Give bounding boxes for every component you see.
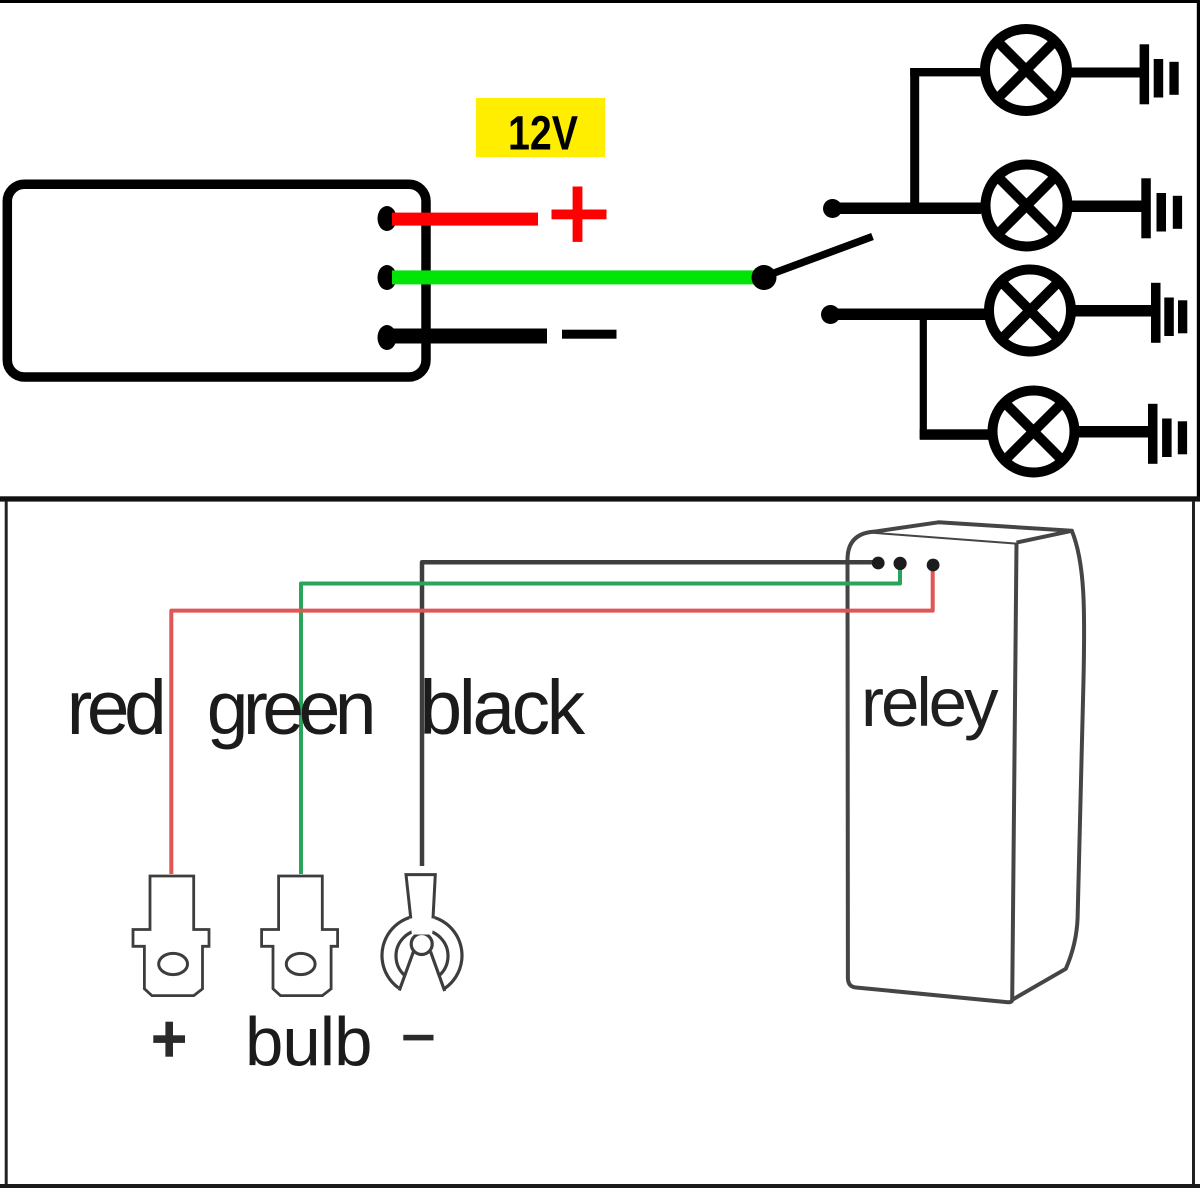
relay pin dot 1 — [872, 557, 885, 570]
wire lamp4 to ground4 — [1078, 426, 1148, 438]
fork inner arc — [396, 930, 448, 976]
connector plus spade — [133, 876, 209, 996]
label 12V — [476, 98, 605, 161]
wire upper contact to lamps — [836, 203, 981, 215]
wire to lamp4 — [920, 429, 991, 440]
border right top section — [1197, 0, 1200, 501]
terminal dot pin2 — [378, 265, 397, 290]
ground G1 — [1140, 44, 1179, 104]
fork outer arc — [382, 916, 462, 989]
wire black ground — [392, 329, 547, 344]
border top — [0, 0, 1200, 3]
terminal dot pin1 — [378, 206, 397, 231]
lamp L3 — [989, 270, 1071, 352]
wire riser to lamp1 — [910, 68, 919, 214]
svg-text:red: red — [67, 665, 162, 751]
wire lamp2 to ground2 — [1072, 201, 1142, 213]
fork slot edge left — [399, 952, 413, 991]
switch contact upper — [823, 199, 842, 218]
switch contact lower — [821, 305, 840, 324]
wire red positive — [392, 213, 538, 226]
svg-text:12V: 12V — [508, 108, 578, 161]
fork stem outline — [406, 875, 435, 919]
minus sign — [562, 330, 617, 339]
divider — [0, 496, 1200, 501]
fork stem cover — [405, 873, 437, 935]
svg-text:reley: reley — [861, 664, 999, 741]
label minus — [403, 1035, 433, 1041]
svg-text:green: green — [207, 666, 372, 750]
lamp L1 — [985, 29, 1067, 111]
svg-text:bulb: bulb — [245, 1004, 371, 1081]
border right bottom section — [1192, 501, 1195, 1186]
relay module box — [7, 184, 426, 377]
relay box top face — [873, 522, 1072, 542]
svg-text:black: black — [419, 665, 585, 751]
fork bump — [411, 934, 432, 955]
switch pivot node — [752, 265, 777, 290]
wire top to lamp1 — [910, 68, 981, 76]
plus sign red — [552, 187, 607, 242]
relay pin dot 2 — [894, 557, 907, 570]
terminal dot pin3 — [378, 325, 397, 350]
connector minus fork — [382, 873, 462, 991]
connector bulb spade — [262, 876, 338, 996]
wire green to relay pin2 — [301, 566, 900, 874]
lamp L4 — [993, 391, 1075, 473]
label plus — [153, 1022, 185, 1057]
ground G2 — [1141, 178, 1182, 238]
border bottom — [0, 1184, 1200, 1188]
wire black to relay pin1 — [422, 562, 874, 866]
relay box right face — [1012, 531, 1084, 1000]
wire riser to lamp4 — [920, 309, 927, 439]
ground G3 — [1151, 283, 1187, 343]
switch lever — [766, 237, 873, 277]
lamp L2 — [986, 165, 1068, 247]
wire lower contact to lamp3 — [836, 309, 986, 321]
wire red to relay pin3 — [171, 568, 932, 874]
relay pin dot 3 — [927, 559, 940, 572]
wire green switch feed — [392, 270, 756, 284]
wire lamp3 to ground3 — [1075, 305, 1151, 317]
ground G4 — [1148, 404, 1187, 464]
border left bottom section — [5, 501, 8, 1186]
wire lamp1 to ground1 — [1071, 68, 1141, 78]
fork slot edge right — [431, 952, 445, 992]
relay box 3d front face — [847, 532, 1016, 1002]
